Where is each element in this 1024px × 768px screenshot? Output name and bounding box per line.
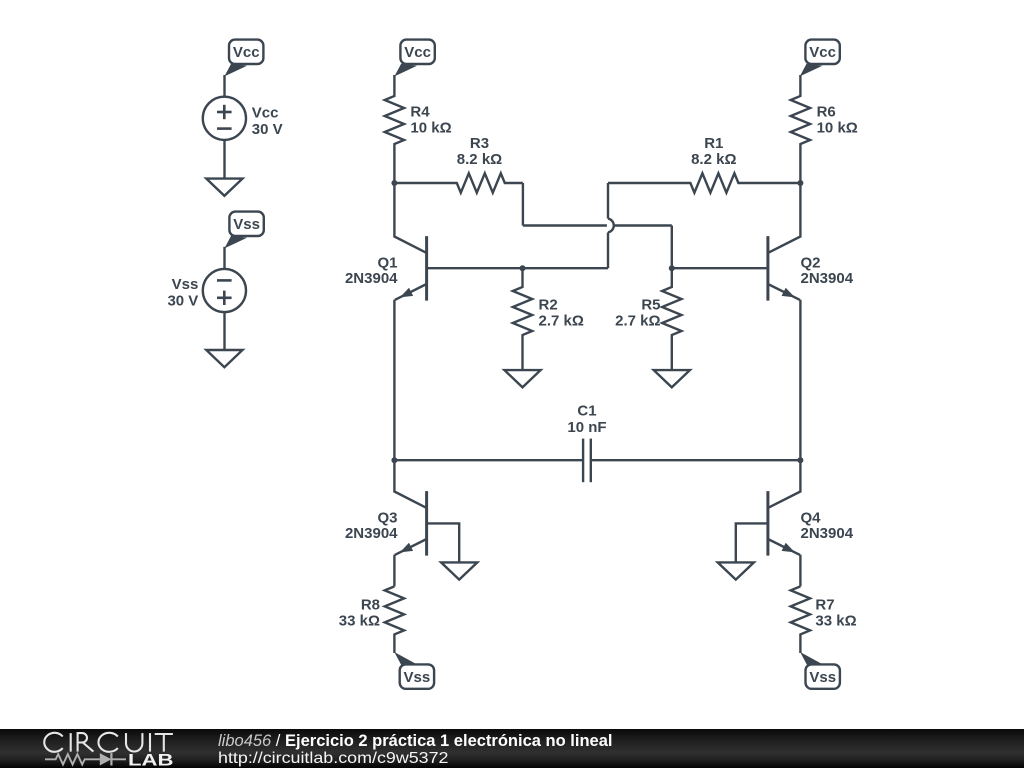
R6 value label <box>817 119 858 136</box>
wire Q1 collector up <box>393 183 395 238</box>
wire cross down to Q2 base node <box>671 226 673 269</box>
svg-text:2.7 kΩ: 2.7 kΩ <box>615 313 660 330</box>
svg-text:30 V: 30 V <box>167 293 198 310</box>
wire Q2 base <box>672 267 768 269</box>
Q2 name label <box>801 254 821 271</box>
svg-text:Vss: Vss <box>404 669 431 686</box>
Q3 name label <box>377 509 397 526</box>
wire Q4 collector up <box>799 460 801 492</box>
wire Q1 emitter down <box>393 300 395 461</box>
R8 name label <box>361 596 380 613</box>
resistor R2 2.7 k <box>513 268 532 370</box>
svg-text:10 kΩ: 10 kΩ <box>410 119 451 136</box>
R2 name label <box>539 297 558 314</box>
junction node at R6/R1 (Q2 collector) <box>797 180 803 186</box>
svg-text:Q4: Q4 <box>801 509 822 526</box>
flag Vss below R8 <box>400 664 434 688</box>
wire Q4 emitter down <box>799 555 801 587</box>
svg-text:R5: R5 <box>641 297 660 314</box>
R3 name label <box>470 135 489 152</box>
svg-text:2N3904: 2N3904 <box>345 525 398 542</box>
R5 value label <box>615 313 660 330</box>
C1 value label <box>567 419 606 436</box>
resistor R8 33 k <box>385 586 404 653</box>
V1 flag pointer <box>224 64 247 77</box>
V1 name label <box>252 105 279 122</box>
wire Q2 collector up <box>799 183 801 238</box>
R4 flag pointer <box>394 64 417 77</box>
wire R1 left end down with hop over <box>608 183 614 268</box>
C1 name label <box>577 403 596 420</box>
wire Q1 base <box>427 267 608 269</box>
R7 flag pointer <box>800 652 822 666</box>
junction node at R4/R3 (Q1 collector) <box>391 180 397 186</box>
wire cross horizontal right segment <box>615 224 672 226</box>
Q2 type label <box>801 270 854 287</box>
svg-text:8.2 kΩ: 8.2 kΩ <box>691 151 736 168</box>
R4 name label <box>410 104 430 121</box>
wire V1 flag to source <box>223 75 225 97</box>
transistor Q2 2N3904 <box>768 236 801 301</box>
wire Q3 emitter down <box>393 555 395 587</box>
V2 value label <box>167 293 198 310</box>
resistor R4 10 k <box>385 75 404 183</box>
R8 value label <box>339 612 380 629</box>
wire Q2 emitter down <box>799 300 801 461</box>
svg-text:R4: R4 <box>410 104 430 121</box>
flag Vcc above R4 <box>400 40 434 64</box>
svg-text:Vcc: Vcc <box>809 44 836 61</box>
svg-text:R6: R6 <box>817 104 836 121</box>
wire C1 net left <box>394 459 583 461</box>
svg-text:2N3904: 2N3904 <box>801 525 854 542</box>
R4 value label <box>410 119 451 136</box>
resistor R5 2.7 k <box>662 268 681 370</box>
R3 value label <box>457 151 502 168</box>
svg-text:libo456 / Ejercicio 2 práctica: libo456 / Ejercicio 2 práctica 1 electró… <box>218 732 613 750</box>
R7 value label <box>815 612 856 629</box>
R7 name label <box>815 596 834 613</box>
voltage source V1 flag Vcc <box>229 40 263 64</box>
Q1 name label <box>377 254 397 271</box>
transistor Q4 2N3904 <box>768 491 801 555</box>
R2 value label <box>539 313 584 330</box>
svg-text:Vcc: Vcc <box>233 44 260 61</box>
wire V2 to ground <box>223 312 225 350</box>
svg-text:C1: C1 <box>577 403 596 420</box>
banner background <box>0 729 1024 768</box>
svg-text:R2: R2 <box>539 297 558 314</box>
voltage source V2 (Vss 30 V) <box>203 269 246 312</box>
wire V1 to ground <box>223 140 225 179</box>
svg-text:8.2 kΩ: 8.2 kΩ <box>457 151 502 168</box>
wire Q3 collector up <box>393 460 395 492</box>
svg-text:LAB: LAB <box>128 751 174 768</box>
ground below R5 <box>654 370 690 387</box>
capacitor C1 10 nF <box>583 439 591 483</box>
svg-text:R1: R1 <box>704 135 723 152</box>
wire C1 net right <box>591 459 801 461</box>
flag Vss below R7 <box>806 664 840 688</box>
resistor R1 8.2 k <box>608 173 800 192</box>
ground below V1 <box>206 179 242 196</box>
R6 name label <box>817 104 836 121</box>
resistor R3 8.2 k <box>394 173 523 192</box>
svg-text:2.7 kΩ: 2.7 kΩ <box>539 313 584 330</box>
R8 flag pointer <box>394 652 416 666</box>
voltage source V2 flag Vss <box>229 212 263 236</box>
svg-text:Vcc: Vcc <box>252 105 279 122</box>
svg-text:10 kΩ: 10 kΩ <box>817 119 858 136</box>
svg-text:Vss: Vss <box>172 276 199 293</box>
junction node at Q1 base / R2 <box>520 265 526 271</box>
wire cross horizontal left segment <box>523 224 607 226</box>
svg-text:10 nF: 10 nF <box>567 419 606 436</box>
wire R3 output down <box>522 183 524 226</box>
R1 name label <box>704 135 723 152</box>
Q3 type label <box>345 525 398 542</box>
flag Vcc above R6 <box>805 40 839 64</box>
V1 value label <box>252 121 283 138</box>
svg-text:Q3: Q3 <box>377 509 397 526</box>
resistor R6 10 k <box>791 75 810 183</box>
svg-text:Vcc: Vcc <box>404 44 431 61</box>
wire Q3 base to ground <box>427 523 460 562</box>
Q4 type label <box>801 525 854 542</box>
banner title line <box>218 732 613 750</box>
svg-text:2N3904: 2N3904 <box>801 270 854 287</box>
svg-text:30 V: 30 V <box>252 121 283 138</box>
logo LAB text <box>128 751 174 768</box>
R6 flag pointer <box>800 64 823 77</box>
V2 name label <box>172 276 199 293</box>
logo resistor-diode glyph <box>45 753 126 765</box>
svg-text:33 kΩ: 33 kΩ <box>339 612 380 629</box>
svg-text:http://circuitlab.com/c9w5372: http://circuitlab.com/c9w5372 <box>218 750 449 767</box>
voltage source V1 (Vcc 30 V) <box>203 97 246 140</box>
svg-text:R8: R8 <box>361 596 380 613</box>
Q4 name label <box>801 509 822 526</box>
svg-text:R7: R7 <box>815 596 834 613</box>
V2 flag pointer <box>224 236 247 249</box>
R5 name label <box>641 297 660 314</box>
ground at Q3 base <box>441 562 477 579</box>
logo CIRCUIT lettering <box>44 733 173 752</box>
svg-text:Vss: Vss <box>233 216 260 233</box>
R1 value label <box>691 151 736 168</box>
svg-text:Q1: Q1 <box>377 254 397 271</box>
junction node C1 left (Q1 emitter/Q3 collector) <box>391 457 397 463</box>
banner url line <box>218 750 449 767</box>
wire Q4 base to ground <box>736 523 768 562</box>
transistor Q3 2N3904 <box>394 491 426 555</box>
ground at Q4 base <box>718 562 754 579</box>
wire V2 flag to source <box>223 247 225 269</box>
svg-text:33 kΩ: 33 kΩ <box>815 612 856 629</box>
ground below V2 <box>206 350 242 367</box>
resistor R7 33 k <box>791 586 810 653</box>
Q1 type label <box>345 270 398 287</box>
svg-text:R3: R3 <box>470 135 489 152</box>
transistor Q1 2N3904 <box>394 236 426 301</box>
svg-text:Q2: Q2 <box>801 254 821 271</box>
svg-text:Vss: Vss <box>809 669 836 686</box>
junction node C1 right (Q2 emitter/Q4 collector) <box>797 457 803 463</box>
svg-text:2N3904: 2N3904 <box>345 270 398 287</box>
ground below R2 <box>504 370 540 387</box>
junction node at Q2 base / R5 <box>669 265 675 271</box>
